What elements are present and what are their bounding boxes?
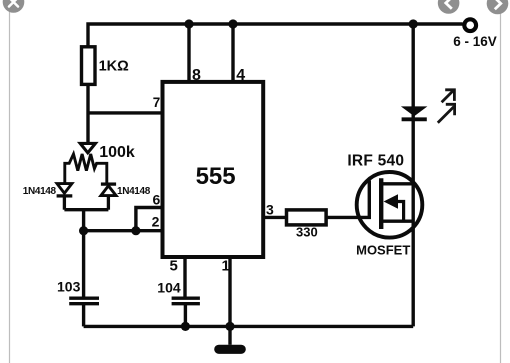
- svg-text:MOSFET: MOSFET: [356, 243, 410, 258]
- svg-text:330: 330: [296, 225, 318, 240]
- svg-text:7: 7: [153, 95, 161, 110]
- svg-text:8: 8: [192, 67, 201, 84]
- svg-text:3: 3: [266, 202, 274, 218]
- svg-text:1: 1: [222, 258, 230, 275]
- svg-text:1N4148: 1N4148: [23, 186, 57, 197]
- svg-text:2: 2: [152, 214, 160, 230]
- svg-text:100k: 100k: [99, 144, 135, 161]
- svg-text:1KΩ: 1KΩ: [99, 58, 130, 74]
- svg-text:IRF 540: IRF 540: [347, 152, 404, 169]
- svg-text:104: 104: [157, 280, 181, 296]
- svg-text:103: 103: [57, 279, 81, 295]
- svg-text:4: 4: [236, 67, 245, 84]
- svg-text:555: 555: [196, 163, 236, 190]
- svg-text:6: 6: [153, 191, 161, 207]
- svg-text:6 - 16V: 6 - 16V: [453, 34, 497, 49]
- svg-text:1N4148: 1N4148: [117, 186, 151, 197]
- svg-text:5: 5: [170, 258, 178, 275]
